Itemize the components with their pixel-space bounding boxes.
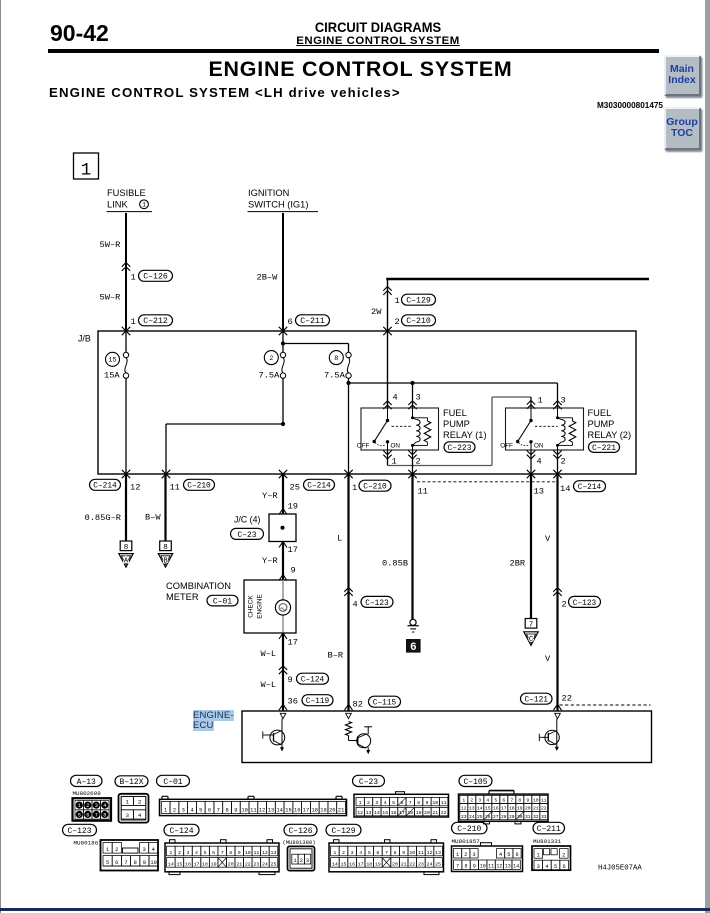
svg-text:23: 23	[461, 814, 467, 820]
svg-text:14: 14	[560, 484, 570, 494]
svg-text:OFF: OFF	[500, 442, 513, 449]
svg-text:5: 5	[78, 812, 81, 818]
svg-text:2: 2	[395, 317, 400, 327]
svg-text:7: 7	[385, 850, 388, 856]
svg-text:16: 16	[294, 808, 300, 814]
svg-text:1: 1	[78, 803, 81, 809]
svg-text:29: 29	[509, 814, 515, 820]
connector C-214 pin 12	[90, 479, 121, 490]
svg-text:11: 11	[541, 798, 547, 804]
svg-text:16: 16	[391, 810, 397, 816]
svg-text:28: 28	[501, 814, 507, 820]
svg-text:6: 6	[410, 642, 417, 654]
svg-text:6: 6	[288, 317, 293, 327]
svg-text:C–214: C–214	[307, 483, 331, 491]
bottom page edge rule	[0, 908, 710, 911]
svg-text:C–214: C–214	[578, 484, 602, 492]
svg-text:25: 25	[271, 861, 277, 867]
svg-text:9: 9	[426, 800, 429, 806]
ground point 6	[406, 639, 421, 653]
svg-text:23: 23	[418, 861, 424, 867]
fuse 8 (7.5A)	[283, 343, 349, 345]
svg-text:4: 4	[138, 812, 142, 819]
svg-text:7: 7	[529, 621, 534, 629]
svg-text:26: 26	[485, 814, 491, 820]
svg-text:0.85G–R: 0.85G–R	[85, 513, 122, 523]
svg-text:5: 5	[199, 808, 202, 814]
svg-text:J/B: J/B	[78, 334, 91, 344]
svg-text:21: 21	[432, 810, 438, 816]
wire: C-214/25 down (Y-R)	[282, 474, 284, 514]
svg-text:17: 17	[288, 638, 298, 648]
header section title	[248, 35, 508, 47]
svg-text:15: 15	[341, 861, 347, 867]
svg-text:10: 10	[480, 864, 486, 870]
svg-text:W–L: W–L	[261, 680, 277, 690]
svg-text:8: 8	[417, 800, 420, 806]
svg-text:82: 82	[353, 700, 363, 710]
svg-text:1: 1	[126, 799, 130, 806]
svg-text:15: 15	[485, 806, 491, 812]
connector A-13 label	[71, 775, 103, 786]
check engine lamp	[282, 580, 284, 600]
svg-text:4: 4	[103, 803, 106, 809]
svg-text:18: 18	[407, 810, 413, 816]
svg-text:14: 14	[477, 806, 483, 812]
svg-text:6: 6	[562, 864, 565, 870]
connector C-123 label	[63, 824, 97, 836]
svg-text:5: 5	[368, 850, 371, 856]
ECU entry arrows	[279, 704, 287, 710]
svg-text:21: 21	[236, 861, 242, 867]
svg-text:RELAY (1): RELAY (1)	[443, 430, 487, 440]
svg-text:30: 30	[517, 814, 523, 820]
svg-text:19: 19	[375, 861, 381, 867]
svg-text:3: 3	[142, 847, 145, 853]
connector C-01 pinout	[160, 799, 347, 815]
svg-text:3: 3	[95, 803, 98, 809]
svg-text:Y–R: Y–R	[262, 556, 278, 566]
svg-text:2: 2	[86, 803, 89, 809]
svg-text:1: 1	[164, 808, 167, 814]
svg-text:1: 1	[456, 852, 459, 858]
svg-text:11: 11	[250, 808, 256, 814]
svg-text:1: 1	[359, 800, 362, 806]
wire: 2W feed rail	[386, 278, 649, 281]
svg-text:11: 11	[418, 850, 424, 856]
svg-text:2: 2	[178, 850, 181, 856]
svg-text:7: 7	[456, 864, 459, 870]
svg-text:C–210: C–210	[457, 825, 481, 834]
svg-text:25: 25	[477, 814, 483, 820]
connector C-211 label	[533, 822, 565, 834]
svg-text:32: 32	[533, 814, 539, 820]
svg-text:3: 3	[306, 858, 309, 864]
svg-text:MU801857: MU801857	[452, 838, 481, 845]
svg-text:17: 17	[303, 808, 309, 814]
svg-text:ON: ON	[534, 442, 544, 449]
sheet ref 8-A	[120, 541, 132, 551]
svg-text:ENGINE: ENGINE	[257, 594, 264, 619]
main index button	[664, 55, 701, 97]
svg-text:22: 22	[409, 861, 415, 867]
svg-text:4: 4	[195, 850, 198, 856]
subtitle	[49, 85, 401, 100]
svg-text:7: 7	[95, 812, 98, 818]
svg-text:4: 4	[486, 798, 489, 804]
fuel pump relay (2) box	[506, 408, 584, 450]
svg-text:L: L	[337, 534, 342, 544]
svg-text:1: 1	[131, 272, 136, 282]
svg-text:2W: 2W	[371, 307, 382, 317]
svg-text:11: 11	[253, 850, 259, 856]
wire: relay pin 13 to sheet ref 7-C (2BR)	[530, 474, 532, 619]
svg-text:Y–R: Y–R	[262, 491, 278, 501]
svg-text:C–211: C–211	[537, 825, 561, 834]
connector C-210 label	[452, 822, 488, 834]
svg-text:6: 6	[208, 808, 211, 814]
svg-text:C–129: C–129	[406, 297, 431, 306]
svg-text:MU802609: MU802609	[73, 790, 102, 797]
svg-text:11: 11	[418, 487, 428, 497]
svg-text:8: 8	[134, 860, 137, 866]
wire: relay1 pin2 down	[408, 451, 416, 455]
svg-text:5W–R: 5W–R	[100, 293, 121, 303]
svg-text:3: 3	[472, 852, 475, 858]
svg-text:1: 1	[395, 296, 400, 306]
transistor Q2	[346, 722, 352, 736]
svg-text:C–126: C–126	[288, 827, 312, 836]
svg-text:9: 9	[234, 808, 237, 814]
svg-text:3: 3	[375, 800, 378, 806]
svg-text:6: 6	[515, 852, 518, 858]
svg-text:16: 16	[493, 806, 499, 812]
svg-text:20: 20	[329, 808, 335, 814]
svg-text:10: 10	[432, 800, 438, 806]
svg-text:19: 19	[320, 808, 326, 814]
svg-text:C–210: C–210	[363, 484, 387, 492]
dashed continuation line	[560, 704, 651, 706]
svg-text:17: 17	[194, 861, 200, 867]
svg-text:10: 10	[241, 808, 247, 814]
svg-text:9: 9	[238, 850, 241, 856]
svg-text:8: 8	[225, 808, 228, 814]
svg-text:12: 12	[427, 850, 433, 856]
svg-text:V: V	[545, 534, 551, 544]
svg-text:2: 2	[269, 355, 273, 363]
svg-text:20: 20	[525, 806, 531, 812]
svg-text:22: 22	[245, 861, 251, 867]
svg-text:21: 21	[338, 808, 344, 814]
svg-text:7: 7	[409, 800, 412, 806]
svg-text:6: 6	[502, 798, 505, 804]
engine ECU hyperlink label	[193, 711, 234, 731]
svg-text:24: 24	[262, 861, 268, 867]
svg-text:C–105: C–105	[463, 778, 487, 787]
wire: fusible link to J/B	[125, 213, 127, 331]
wire: C-210/1 to ECU pin 82 (L / B-R)	[347, 474, 349, 711]
svg-text:C–123: C–123	[365, 600, 389, 608]
svg-text:2: 2	[561, 456, 566, 466]
svg-text:25: 25	[435, 861, 441, 867]
svg-text:9: 9	[402, 850, 405, 856]
connector C-129 pinout	[329, 843, 444, 872]
connector C-121 pin 22	[521, 693, 553, 704]
svg-text:22: 22	[562, 694, 572, 704]
svg-text:13: 13	[505, 864, 511, 870]
crossover mark	[122, 263, 130, 267]
svg-text:METER: METER	[166, 592, 199, 602]
wire: C-214/12 to ground ref A	[125, 474, 127, 541]
connector C-211 pinout	[532, 846, 571, 870]
svg-text:23: 23	[253, 861, 259, 867]
relay2 switch	[530, 408, 532, 421]
wire: relay2 pin4 down	[527, 451, 535, 455]
connector C-123 pinout	[101, 840, 159, 871]
svg-text:C–123: C–123	[67, 827, 91, 836]
svg-text:H4J05E07AA: H4J05E07AA	[598, 864, 642, 872]
svg-text:7: 7	[217, 808, 220, 814]
svg-text:8: 8	[465, 864, 468, 870]
svg-text:20: 20	[228, 861, 234, 867]
svg-text:14: 14	[276, 808, 282, 814]
svg-text:W–L: W–L	[261, 649, 277, 659]
connector C-23 label	[353, 775, 385, 786]
svg-text:C–121: C–121	[525, 697, 549, 705]
svg-text:1: 1	[352, 483, 357, 493]
svg-text:13: 13	[435, 850, 441, 856]
svg-text:2BR: 2BR	[510, 559, 526, 569]
svg-text:2: 2	[173, 808, 176, 814]
wire: J/C to combination meter	[282, 542, 284, 581]
svg-text:2: 2	[464, 852, 467, 858]
svg-text:17: 17	[288, 545, 298, 555]
engine ECU box	[242, 711, 652, 763]
wire: 2W drop to J/B	[387, 279, 389, 331]
svg-text:IGNITION: IGNITION	[248, 188, 289, 198]
svg-text:A: A	[124, 558, 129, 566]
wire: relay1 pin4 feed	[387, 331, 389, 408]
svg-text:4: 4	[359, 850, 362, 856]
connector C-23 pinout	[354, 794, 449, 817]
svg-text:CHECK: CHECK	[248, 595, 255, 618]
svg-text:2: 2	[562, 852, 565, 858]
svg-text:C–01: C–01	[213, 597, 232, 606]
svg-text:14: 14	[332, 861, 338, 867]
svg-text:PUMP: PUMP	[588, 419, 615, 429]
svg-text:9: 9	[143, 860, 146, 866]
svg-text:A–13: A–13	[77, 778, 96, 787]
svg-text:16: 16	[185, 861, 191, 867]
connector A-13 pinout	[73, 798, 112, 821]
svg-text:5: 5	[494, 798, 497, 804]
svg-text:C–01: C–01	[163, 778, 182, 787]
svg-text:22: 22	[441, 810, 447, 816]
svg-text:C–23: C–23	[237, 531, 256, 540]
svg-text:25: 25	[290, 482, 300, 492]
svg-text:2: 2	[138, 799, 141, 806]
svg-text:8: 8	[518, 798, 521, 804]
svg-text:27: 27	[493, 814, 499, 820]
svg-text:7: 7	[124, 860, 127, 866]
svg-text:19: 19	[517, 806, 523, 812]
svg-text:8: 8	[103, 812, 106, 818]
svg-text:18: 18	[202, 861, 208, 867]
svg-text:10: 10	[150, 860, 156, 866]
svg-text:8: 8	[394, 850, 397, 856]
connector C-105 pinout	[459, 794, 549, 821]
wire: C-214/14 to ECU pin 22 (V)	[556, 474, 558, 711]
svg-text:18: 18	[312, 808, 318, 814]
svg-text:8: 8	[229, 850, 232, 856]
svg-text:4: 4	[384, 800, 387, 806]
sheet ref 8-B	[160, 541, 172, 551]
svg-text:11: 11	[170, 482, 180, 492]
svg-text:17: 17	[501, 806, 507, 812]
svg-text:RELAY (2): RELAY (2)	[588, 430, 632, 440]
svg-text:2: 2	[115, 847, 118, 853]
wire: meter to ECU pin 36 (W-L)	[282, 633, 284, 711]
svg-text:21: 21	[533, 806, 539, 812]
svg-text:COMBINATION: COMBINATION	[166, 581, 231, 591]
svg-text:B–R: B–R	[328, 651, 344, 661]
svg-text:14: 14	[513, 864, 519, 870]
connector B-12X pinout	[119, 794, 149, 823]
svg-text:3: 3	[126, 812, 129, 819]
svg-text:13: 13	[268, 808, 274, 814]
relay2 coil	[557, 408, 559, 418]
svg-text:16: 16	[349, 861, 355, 867]
connector C-124 label	[164, 824, 199, 836]
svg-text:C–115: C–115	[373, 700, 397, 708]
svg-text:B: B	[163, 558, 168, 566]
svg-text:8: 8	[334, 355, 338, 363]
document number	[463, 101, 663, 110]
svg-text:C–126: C–126	[143, 273, 168, 282]
svg-text:3: 3	[416, 393, 421, 403]
svg-text:5: 5	[554, 864, 557, 870]
header page number	[50, 20, 109, 47]
svg-text:4: 4	[190, 808, 193, 814]
transistor Q1	[281, 719, 283, 749]
svg-text:MU801331: MU801331	[533, 838, 562, 845]
svg-text:24: 24	[427, 861, 433, 867]
combination meter box C-01	[244, 580, 296, 633]
svg-text:11: 11	[441, 800, 447, 806]
connector C-124 pinout	[165, 843, 279, 872]
svg-text:3: 3	[561, 396, 566, 406]
svg-text:C–129: C–129	[331, 827, 355, 836]
svg-text:1: 1	[131, 317, 136, 327]
svg-text:36: 36	[288, 697, 298, 707]
svg-text:C–23: C–23	[359, 778, 378, 787]
svg-text:10: 10	[409, 850, 415, 856]
svg-text:4: 4	[499, 852, 502, 858]
svg-text:18: 18	[366, 861, 372, 867]
svg-text:C–211: C–211	[300, 317, 325, 326]
header chapter title	[255, 20, 502, 35]
sheet number box 1	[74, 153, 99, 179]
wire: relay pin 11 to ground 6 (0.85B)	[411, 474, 413, 620]
connector C-126 label	[284, 824, 317, 836]
svg-text:V: V	[545, 654, 551, 664]
svg-text:3: 3	[478, 798, 481, 804]
svg-text:1: 1	[537, 852, 540, 858]
svg-text:B–W: B–W	[145, 513, 161, 523]
wire: relay1 pin1 to relay2 pin1	[383, 451, 391, 455]
svg-text:13: 13	[271, 850, 277, 856]
svg-text:1: 1	[81, 161, 92, 181]
svg-text:2: 2	[562, 599, 567, 609]
svg-text:9: 9	[473, 864, 476, 870]
relay1 coil	[412, 408, 414, 418]
wire: fuse2 to pin 25 and pin 11	[281, 422, 285, 426]
connector B-12X label	[115, 776, 148, 787]
connector C-105 label	[459, 775, 492, 786]
wire: relay2 pin3 drop	[557, 383, 559, 408]
svg-text:C–214: C–214	[93, 483, 117, 491]
J/B entry arrows	[122, 327, 130, 335]
svg-text:20: 20	[424, 810, 430, 816]
fuel pump relay (1) box	[361, 408, 439, 450]
svg-text:24: 24	[469, 814, 475, 820]
svg-text:0.85B: 0.85B	[382, 559, 408, 569]
svg-text:C–210: C–210	[406, 317, 431, 326]
main title	[55, 57, 666, 82]
svg-text:1: 1	[293, 858, 296, 864]
svg-text:5: 5	[392, 800, 395, 806]
svg-text:3: 3	[351, 850, 354, 856]
svg-text:33: 33	[541, 814, 547, 820]
group TOC button	[664, 107, 701, 150]
wire: fuse8 rail to relay pins 3	[349, 382, 558, 384]
svg-text:1: 1	[538, 396, 543, 406]
svg-text:15: 15	[176, 861, 182, 867]
connector C-126 pinout	[288, 846, 315, 870]
svg-text:5: 5	[204, 850, 207, 856]
svg-text:LINK: LINK	[107, 200, 128, 210]
svg-text:15: 15	[382, 810, 388, 816]
svg-text:19: 19	[211, 861, 217, 867]
svg-text:C–210: C–210	[187, 483, 211, 491]
svg-text:2: 2	[367, 800, 370, 806]
svg-text:FUEL: FUEL	[443, 408, 467, 418]
svg-text:31: 31	[525, 814, 531, 820]
svg-text:2: 2	[416, 456, 421, 466]
svg-text:13: 13	[534, 487, 544, 497]
svg-text:3: 3	[182, 808, 185, 814]
svg-text:12: 12	[259, 808, 265, 814]
svg-text:2: 2	[470, 798, 473, 804]
svg-text:C–221: C–221	[592, 444, 616, 453]
wire: ignition switch to J/B	[282, 213, 284, 331]
svg-text:15: 15	[285, 808, 291, 814]
relay2 resistor	[558, 417, 573, 419]
svg-text:2: 2	[342, 850, 345, 856]
svg-text:6: 6	[376, 850, 379, 856]
svg-text:B–12X: B–12X	[119, 778, 143, 787]
svg-text:8: 8	[163, 544, 168, 552]
connector C-129 label	[326, 824, 361, 836]
svg-text:3: 3	[537, 864, 540, 870]
svg-text:C–223: C–223	[447, 444, 471, 453]
svg-text:14: 14	[168, 861, 174, 867]
svg-text:17: 17	[358, 861, 364, 867]
svg-text:FUSIBLE: FUSIBLE	[107, 188, 146, 198]
svg-text:4: 4	[393, 393, 398, 403]
svg-text:9: 9	[288, 675, 293, 685]
right page edge bar	[705, 0, 710, 913]
